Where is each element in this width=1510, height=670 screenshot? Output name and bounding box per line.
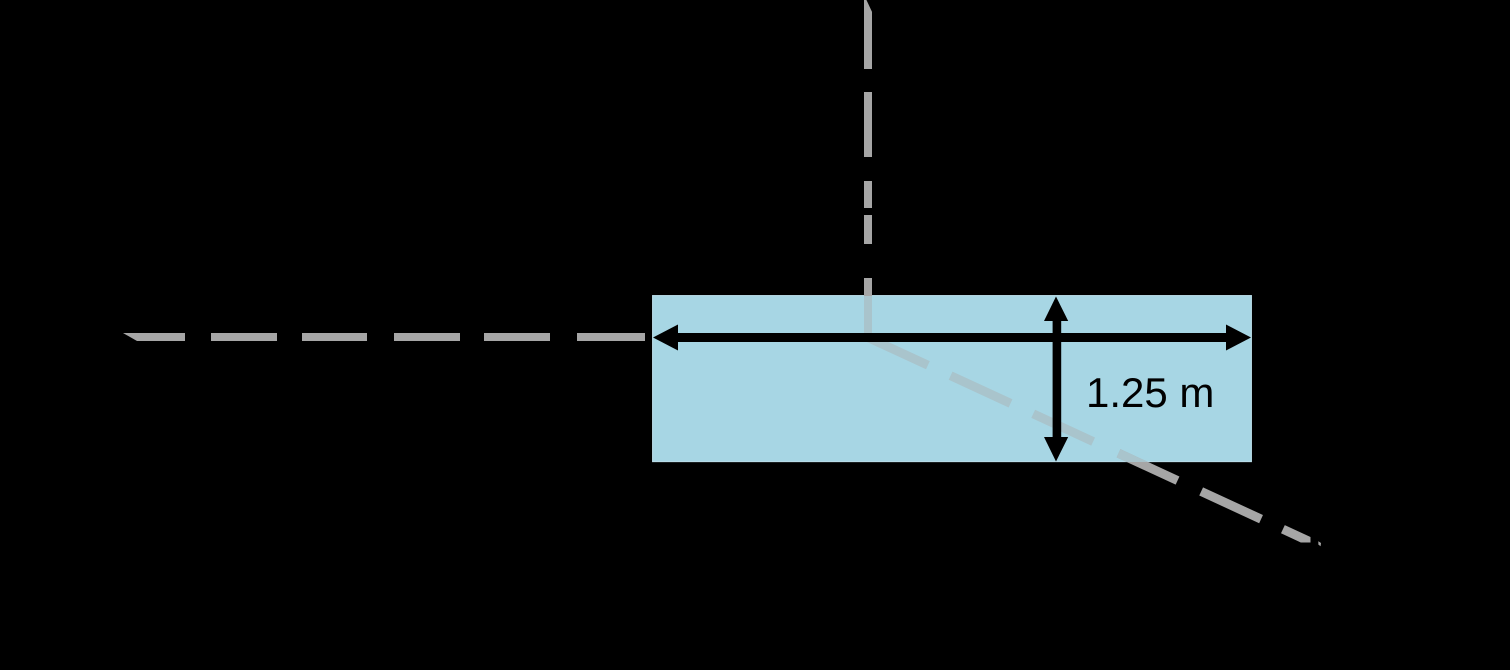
svg-text:1.25 m: 1.25 m xyxy=(1086,369,1214,416)
